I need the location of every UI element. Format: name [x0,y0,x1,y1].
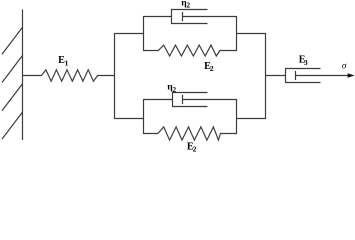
svg-text:2: 2 [210,64,214,73]
svg-text:2: 2 [193,145,197,153]
svg-text:σ: σ [342,61,347,71]
svg-text:3: 3 [304,58,308,67]
svg-text:2: 2 [187,2,191,10]
svg-text:2: 2 [173,86,177,94]
svg-text:1: 1 [65,58,69,67]
